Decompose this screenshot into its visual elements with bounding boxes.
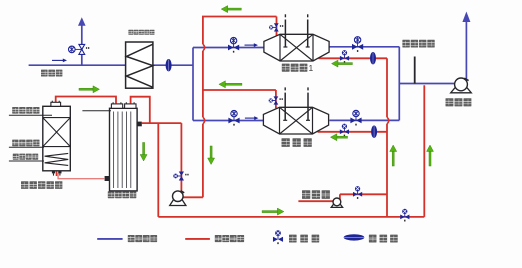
vessel heat exchanger body <box>110 108 138 191</box>
wire right collector <box>398 47 400 121</box>
HE top nozzle left <box>111 104 122 108</box>
valve V3 tower2 feed <box>228 110 239 125</box>
wire header right riser <box>423 85 425 217</box>
label filter <box>128 30 154 35</box>
red bus hop over blue t2 <box>203 117 205 124</box>
wire tower1 outlet <box>329 46 399 48</box>
wire cold fan inlet <box>298 200 333 202</box>
bed top nozzle <box>51 102 61 106</box>
wire collector to main fan <box>399 83 456 85</box>
wire red top run <box>202 16 277 18</box>
flow arrow green left tower1 <box>332 60 353 67</box>
desorb fan M2 <box>170 191 186 206</box>
flow arrow green left tower2 <box>330 134 347 141</box>
valve V9 on tower2 red outlet <box>340 124 349 137</box>
main fan M1 <box>451 78 472 93</box>
HE top nozzle right <box>125 104 136 108</box>
red bus hop over blue t1 <box>203 44 205 51</box>
label heater <box>13 154 38 160</box>
flow arrow green down HE <box>140 143 147 162</box>
bed inner dividers <box>43 117 71 119</box>
vent arrowhead <box>78 17 86 26</box>
bed bottom nozzles <box>52 171 55 174</box>
legend red line <box>185 238 210 240</box>
wire bus to tower2 <box>193 120 263 122</box>
wire inlet gas line <box>29 64 126 66</box>
wire filter to bus <box>153 64 193 66</box>
tower2 internal pipes <box>283 87 310 120</box>
cold fan M3 <box>331 198 342 207</box>
label tower1 <box>282 64 308 72</box>
legend electric valve symbol <box>273 230 283 244</box>
legend label electric valve <box>289 235 319 243</box>
filter F1 body <box>126 42 153 88</box>
label catalytic bed <box>21 181 62 189</box>
vessel adsorption tower 1 <box>264 34 329 61</box>
valve V12 desorb fan inlet <box>173 172 188 181</box>
legend label desorption pipe <box>215 235 244 242</box>
tower1 internal pipes <box>283 14 309 47</box>
wire vent riser <box>81 25 83 65</box>
valve V5 tower2 outlet <box>350 110 361 125</box>
concentration probe stem <box>414 57 416 84</box>
flow arrow green right header <box>262 208 284 215</box>
wire bottom header <box>158 216 424 218</box>
wire HE side outlet <box>142 122 182 124</box>
wire HE bottom return to bed <box>58 173 104 179</box>
label cold fan <box>302 190 330 199</box>
valve V11 on bottom header <box>400 209 409 222</box>
wire red drop tower2 <box>275 90 277 108</box>
legend label fire damper <box>369 235 398 243</box>
label temp probe 1 <box>12 107 39 114</box>
filter F1 zigzag <box>126 44 152 87</box>
valve V1 on vent riser <box>69 44 90 54</box>
wire HE top-right bridge <box>131 97 150 123</box>
flow arrow green up right2 <box>427 145 434 166</box>
legend fire damper symbol <box>344 234 365 240</box>
wire valve drop to fan <box>180 123 182 191</box>
inlet flow arrow <box>52 59 67 63</box>
flow arrow tower2 feed <box>245 116 259 120</box>
wire bed to HE top-left <box>56 97 116 104</box>
fire damper FD3 <box>372 126 377 137</box>
wire cold fan run <box>340 193 387 195</box>
exhaust arrowhead <box>462 12 470 23</box>
valve V7 tower2 desorb <box>269 96 283 104</box>
probe line 2 <box>9 146 44 148</box>
flow arrow green up right1 <box>390 145 397 166</box>
wire red bus <box>202 17 204 45</box>
wire red branch tower2 <box>203 89 276 91</box>
wire tower2 outlet <box>329 119 399 121</box>
bed X packing <box>43 118 71 147</box>
flow arrow green down mid <box>208 146 215 165</box>
flow arrow green left top <box>221 6 241 13</box>
wire tower1 red outlet <box>319 57 388 59</box>
valve V2 tower1 feed <box>228 37 239 52</box>
HE left bottom nozzle <box>105 176 110 181</box>
flow arrow tower1 feed <box>245 43 259 47</box>
svg-text:1: 1 <box>309 63 314 73</box>
valve V8 on tower1 red outlet <box>340 50 349 63</box>
wire main fan exhaust <box>465 21 467 80</box>
probe line 1 <box>9 114 52 116</box>
red riser hop over blue <box>387 117 389 124</box>
legend label adsorption pipe <box>128 235 157 242</box>
wire desorb fan outlet <box>183 196 203 198</box>
fire damper FD1 on inlet <box>166 59 171 70</box>
valve V4 tower1 outlet <box>352 37 363 52</box>
vessel adsorption tower 2 <box>263 107 328 134</box>
wire bus to tower1 <box>193 47 264 49</box>
wire red right riser <box>386 58 388 117</box>
label concentration probe <box>402 40 434 48</box>
label tower2 <box>282 138 312 147</box>
label main fan <box>446 98 472 106</box>
HE tube lines <box>114 112 131 189</box>
red stub under bed nozzle <box>56 172 58 177</box>
wire header left riser <box>157 123 159 217</box>
wire cold fan up leg <box>339 194 341 200</box>
fire damper FD2 <box>371 53 376 64</box>
HE right nozzle <box>137 122 142 127</box>
wire red drop tower1 <box>276 17 278 36</box>
flow arrow green right top-left <box>79 86 100 93</box>
desorb fan nub <box>181 191 185 193</box>
valve V10 on cold fan run <box>353 186 362 199</box>
flow arrow green left mid <box>219 81 242 88</box>
legend blue line <box>97 238 122 240</box>
label temp probe 2 <box>12 140 39 147</box>
wire bus vertical <box>192 48 194 121</box>
valve V6 tower1 desorb <box>269 23 283 31</box>
vessel catalytic bed body <box>43 106 71 171</box>
probe line 3 <box>9 160 44 162</box>
main fan inlet nub <box>464 78 468 80</box>
wire tower2 red outlet <box>318 131 388 133</box>
label mixed gas <box>41 70 62 77</box>
bed heater zigzag <box>45 153 69 165</box>
HE probe line <box>82 110 111 112</box>
label heat exchanger <box>108 191 137 198</box>
